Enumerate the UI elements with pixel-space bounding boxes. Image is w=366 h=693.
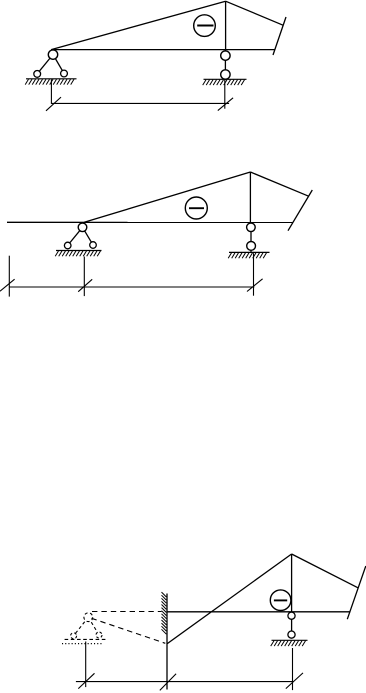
beam B3 xyxy=(167,611,350,613)
right pendulum support S2 xyxy=(203,50,247,86)
tick xyxy=(286,673,303,689)
extension line xyxy=(50,79,52,104)
tick xyxy=(78,673,94,688)
mast vertical xyxy=(291,554,293,638)
ground hatch xyxy=(55,251,58,256)
leg xyxy=(37,55,53,74)
leg xyxy=(68,227,83,245)
load symbol circle-minus G1 xyxy=(194,15,216,37)
leg xyxy=(83,227,94,245)
ground line xyxy=(204,78,247,80)
jib tip stroke xyxy=(347,566,366,619)
dashed leg xyxy=(74,617,89,636)
link xyxy=(250,222,252,252)
ground hatch xyxy=(271,641,274,646)
pin circle xyxy=(221,70,230,79)
roller circle xyxy=(90,242,97,249)
roller circle xyxy=(64,242,71,249)
dashed tie trace xyxy=(92,618,166,643)
dimension line D1 xyxy=(46,79,233,110)
load symbol circle-minus G3 xyxy=(270,590,291,611)
dashed beam trace xyxy=(92,611,162,613)
jib tip stroke xyxy=(288,190,312,231)
jib right chord xyxy=(226,1,284,25)
wall line and extension xyxy=(166,594,168,690)
dashed leg xyxy=(88,617,99,635)
ground hatch xyxy=(228,253,231,258)
tick xyxy=(247,279,263,292)
leg xyxy=(53,55,64,74)
link xyxy=(224,50,226,80)
diagram 3 crane frame xyxy=(167,554,366,644)
beam B1 xyxy=(51,49,275,51)
mast vertical xyxy=(249,172,251,222)
pendulum support S5 xyxy=(271,612,308,646)
dimension line xyxy=(9,286,254,288)
left A-frame support S1 xyxy=(25,50,76,85)
dashed roller circle xyxy=(96,632,102,638)
pin circle xyxy=(288,631,295,638)
dashed hinge circle xyxy=(84,613,93,622)
pin circle xyxy=(221,51,230,60)
hinge circle xyxy=(48,50,57,59)
ground line xyxy=(229,251,270,253)
ground hatch xyxy=(25,79,28,84)
wall support W3 xyxy=(162,592,168,689)
dotted ground hatch xyxy=(62,643,104,645)
ground hatch xyxy=(203,80,206,85)
dimension line xyxy=(76,681,294,683)
pin circle xyxy=(247,223,256,232)
extension line xyxy=(8,256,10,297)
ghost A-frame support (dashed) S6 xyxy=(62,613,106,644)
tick xyxy=(46,97,61,111)
extension line xyxy=(224,80,226,109)
dashed roller circle xyxy=(71,633,77,639)
mast vertical xyxy=(225,1,227,49)
ground line xyxy=(26,78,77,80)
jib left chord xyxy=(51,1,225,49)
beam B2 xyxy=(7,221,293,223)
extension line xyxy=(83,257,85,297)
jib chord xyxy=(84,172,250,222)
pin circle xyxy=(247,242,256,251)
tick xyxy=(78,279,92,291)
roller circle xyxy=(61,70,68,77)
dimension line D2 xyxy=(0,253,263,296)
roller circle xyxy=(34,71,41,78)
jib tip stroke xyxy=(273,17,286,55)
extension line xyxy=(253,253,255,296)
jib right chord xyxy=(292,554,358,588)
dashed ground line xyxy=(65,638,107,640)
left A-frame support S3 xyxy=(55,223,101,256)
ground line xyxy=(56,250,102,252)
bottom chord diagonal xyxy=(167,554,291,644)
tick xyxy=(160,674,176,691)
extension line xyxy=(292,648,294,690)
wall hatch xyxy=(162,592,167,597)
diagram 1 crane frame xyxy=(51,1,286,55)
pin circle xyxy=(288,612,295,619)
diagram 2 crane frame xyxy=(7,172,312,231)
dimension line xyxy=(51,102,229,104)
ground line xyxy=(272,639,308,641)
extension line xyxy=(85,642,87,688)
dimension line D3 xyxy=(76,642,303,691)
tick xyxy=(218,98,233,111)
tick xyxy=(0,279,15,291)
load symbol circle-minus G2 xyxy=(185,197,207,219)
jib right chord xyxy=(250,172,308,196)
right pendulum support S4 xyxy=(228,222,269,258)
hinge circle xyxy=(78,223,87,232)
